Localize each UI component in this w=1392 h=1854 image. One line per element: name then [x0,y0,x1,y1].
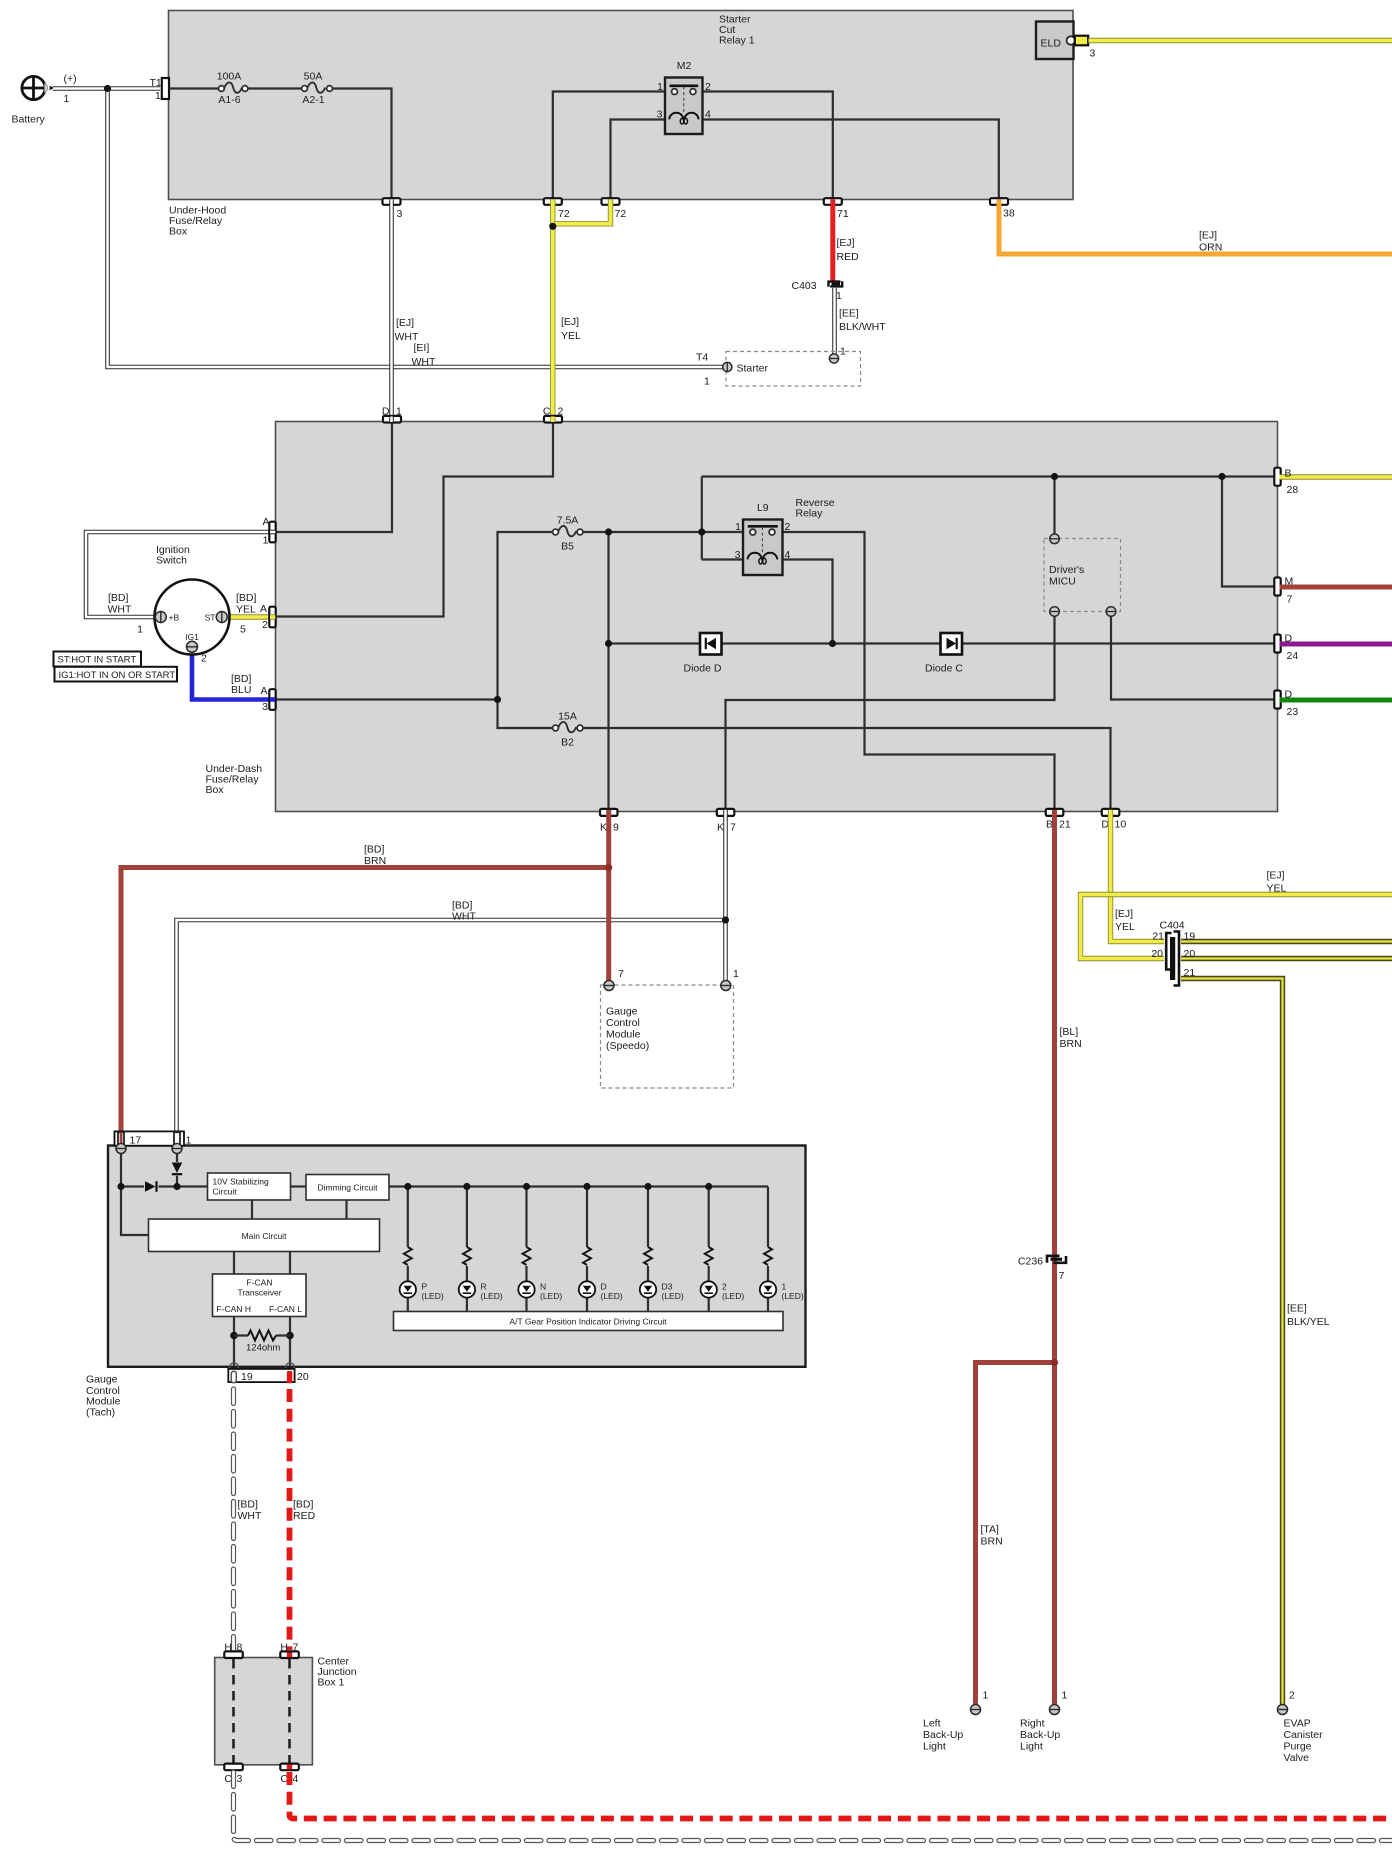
svg-text:D: D [1285,689,1293,701]
resistor 124ohm [234,1331,290,1354]
svg-text:3: 3 [262,701,268,713]
svg-text:20: 20 [297,1371,309,1383]
svg-text:72: 72 [615,208,627,220]
wire: [EJ] YEL from 72a down to C2 [550,200,555,422]
svg-text:Main Circuit: Main Circuit [242,1231,288,1241]
svg-text:(LED): (LED) [422,1291,444,1301]
svg-text:1: 1 [836,290,842,302]
connector 3 (under-hood box) [383,198,403,220]
ignition switch blue wire IG1 to A3 [192,653,271,700]
svg-text:T4: T4 [696,352,708,364]
svg-text:7.5A: 7.5A [557,515,579,527]
node: dot diode row at relay pin4 [829,640,836,647]
svg-text:Switch: Switch [156,555,187,567]
svg-text:A: A [260,603,267,615]
label [BD] BLU (ignition) [231,673,252,696]
svg-text:4: 4 [293,1773,299,1785]
connector C2 (under-dash top) [543,406,564,423]
svg-text:D: D [601,1282,607,1292]
svg-text:Back-Up: Back-Up [1020,1729,1060,1741]
label [BD] WHT (ignition) [108,592,132,616]
relay M2 (starter cut relay 1) [657,60,711,134]
svg-text:7: 7 [1287,594,1293,606]
connector B21 [1046,809,1071,831]
svg-text:19: 19 [241,1371,253,1383]
svg-text:C236: C236 [1018,1256,1043,1268]
svg-text:1: 1 [186,1135,192,1147]
LED column P [400,1183,444,1312]
svg-text:[EJ]: [EJ] [837,237,855,249]
svg-text:Module: Module [606,1029,641,1041]
label [BD] WHT [452,900,476,923]
label: reverse relay [796,497,835,520]
svg-text:Box: Box [169,226,188,238]
wire: 10V box down to main circuit [251,1200,253,1219]
svg-text:1: 1 [782,1282,787,1292]
note box ST:HOT IN START [54,652,142,667]
wire: MICU top pin from B28 row [1053,477,1055,535]
wire: dashed black inside junction box (right) [288,1659,291,1763]
svg-text:[BL]: [BL] [1060,1026,1079,1038]
svg-text:H: H [280,1642,288,1654]
svg-text:Gauge: Gauge [86,1374,118,1386]
svg-text:M: M [1285,576,1294,588]
svg-text:YEL: YEL [236,604,256,616]
svg-text:(+): (+) [64,73,77,85]
node: dot B28 row at M7 branch [1218,473,1225,480]
wire: M2 pin 2 to connector 71 [703,92,833,199]
svg-text:(LED): (LED) [722,1291,744,1301]
svg-text:2: 2 [705,81,711,93]
svg-text:(LED): (LED) [481,1291,503,1301]
wire: MICU bottom-left pin to K7 [726,616,1055,809]
wire: main circuit to F-CAN transceiver [234,1252,290,1275]
svg-text:ST: ST [205,613,216,623]
connector K7 [717,809,736,834]
svg-text:BRN: BRN [1060,1038,1082,1050]
svg-text:Circuit: Circuit [213,1187,238,1197]
svg-text:IG1: IG1 [185,632,199,642]
node: dot on white wire at K7 branch [722,916,729,923]
svg-text:Relay 1: Relay 1 [719,35,755,47]
label [BD] YEL (ignition) [236,592,257,616]
fuse 100A A1-6 [217,71,248,107]
under-dash fuse/relay box [276,422,1278,812]
svg-text:Right: Right [1020,1718,1045,1730]
svg-text:R: R [481,1282,487,1292]
svg-text:D: D [1285,633,1293,645]
svg-text:1: 1 [735,521,741,533]
svg-text:[EJ]: [EJ] [561,316,579,328]
wire: L9 pin 4 to diode row [783,560,833,644]
wire: 10V box to dimming box [291,1185,307,1187]
svg-text:1: 1 [137,624,143,636]
LED column N [518,1183,562,1312]
connector K9 [600,809,619,834]
svg-text:WHT: WHT [452,911,476,923]
svg-text:17: 17 [130,1135,142,1147]
svg-text:RED: RED [837,251,860,263]
svg-text:21: 21 [1152,931,1164,943]
wire: [BL] BRN from B21 down to back-up lights [976,810,1055,1705]
svg-text:B5: B5 [561,541,574,553]
LED column R [459,1183,503,1312]
wire: junction down to 15A fuse row to D10 [498,700,1111,809]
wire: [EI] WHT battery junction down and right to starter T4 [108,89,723,368]
svg-text:(LED): (LED) [782,1291,804,1301]
MICU top pin [1049,534,1060,544]
svg-text:MICU: MICU [1049,576,1076,588]
svg-text:10: 10 [1115,819,1127,831]
label: left back-up light [923,1718,963,1753]
driver's MICU dashed box [1044,539,1121,612]
svg-text:Diode D: Diode D [684,663,722,675]
relay L9 (reverse relay) [735,502,791,575]
tach: pin 1 internal wire and down diode [177,1153,208,1187]
svg-text:[BD]: [BD] [236,592,257,604]
svg-text:M2: M2 [677,60,692,72]
svg-text:[BD]: [BD] [364,844,385,856]
wire: dashed black inside junction box (left) [232,1659,235,1763]
svg-text:1: 1 [64,93,70,105]
label: under-hood box [169,205,226,238]
wire: [EE] BLK/YEL C404 pin 21 to EVAP valve [1181,979,1283,1706]
tach: internal diode (pin1 branch, down-pointing) [172,1163,182,1175]
svg-text:[EJ]: [EJ] [1199,230,1217,242]
wire: [EJ] YEL from right edge to C404 pin 20 [1081,895,1392,959]
svg-text:B: B [1285,468,1292,480]
svg-text:[EJ]: [EJ] [1115,908,1133,920]
svg-text:F-CAN: F-CAN [247,1278,273,1288]
speedo pin 7 [603,968,624,991]
svg-text:3: 3 [397,208,403,220]
under-hood fuse/relay box [169,11,1074,200]
label: EVAP canister purge valve [1284,1718,1324,1765]
wire: [EJ] ORN from connector 38 to right edge [999,200,1392,255]
svg-text:C403: C403 [792,280,817,292]
connector D24 + purple wire to edge [1274,633,1392,663]
battery labels [12,73,77,126]
svg-text:ORN: ORN [1199,242,1222,254]
connector A1 [262,516,275,547]
fuse 7.5A B5 [553,515,583,553]
connector 72b [602,198,627,220]
svg-text:Transceiver: Transceiver [237,1288,281,1298]
node: dot on brown wire at back-up branch [1051,1359,1058,1366]
svg-text:20: 20 [1151,948,1163,960]
svg-text:1: 1 [733,968,739,980]
svg-text:3: 3 [657,109,663,121]
wire: dimming box down to main circuit [345,1200,347,1219]
svg-text:2: 2 [558,406,564,418]
connector C403 [792,280,843,302]
svg-text:+B: +B [169,613,180,623]
label [EJ] YEL (top right) [1267,870,1287,895]
svg-text:A2-1: A2-1 [302,94,324,106]
wire: L9 pin 2 to B21 [783,532,1055,809]
wire: MICU bottom-right pin to D23 [1111,616,1278,700]
svg-text:21: 21 [1184,967,1196,979]
svg-text:1: 1 [1062,1690,1068,1702]
connector B28 + yellow wire to edge [1274,468,1392,497]
svg-text:(LED): (LED) [540,1291,562,1301]
svg-text:2: 2 [201,653,207,665]
wire: [EJ] YEL from D10 to C404 pin 21 [1111,810,1165,942]
label [BD] WHT (dashed) [238,1499,262,1523]
connector T1 [150,77,170,102]
svg-text:19: 19 [1184,931,1196,943]
svg-text:10V Stabilizing: 10V Stabilizing [213,1177,270,1187]
svg-text:Gauge: Gauge [606,1006,638,1018]
svg-text:WHT: WHT [108,604,132,616]
svg-text:21: 21 [1059,819,1071,831]
wire: M2 pin 4 to connector 38 [703,120,999,199]
svg-text:8: 8 [237,1642,243,1654]
label: center junction box 1 [318,1656,357,1689]
ignition switch [155,580,230,655]
wire: T1 to fuse 100A [169,87,219,89]
wire: junction up to 7.5A fuse row and to relay L9 pin 1 [498,532,744,700]
wire: diode row to D24 [609,642,1278,644]
label: right back-up light [1020,1718,1060,1753]
wire: M2 pin 1 to connector 72a [553,92,665,199]
label [BD] BRN [364,844,386,868]
svg-text:28: 28 [1287,484,1299,496]
diode D [684,633,722,675]
node: junction dot on battery wire [104,85,111,92]
svg-text:Box: Box [206,784,225,796]
connector D23 + green wire to edge [1274,689,1392,719]
dimming circuit box [306,1175,389,1201]
connector C4 [280,1764,299,1785]
svg-text:9: 9 [613,822,619,834]
svg-text:BLU: BLU [231,684,251,696]
wire: between fuses [248,87,302,89]
svg-text:YEL: YEL [1267,883,1287,895]
svg-text:1: 1 [155,90,161,102]
svg-text:[BD]: [BD] [108,592,129,604]
label: under-dash box [206,763,263,796]
svg-text:Dimming Circuit: Dimming Circuit [318,1183,379,1193]
svg-text:Starter: Starter [737,363,769,375]
svg-text:1: 1 [263,535,269,547]
tach bottom connector (pins 19 and 20) [228,1363,309,1383]
wire: [BD] RED dashed from pin 20 to H7 [287,1389,293,1650]
svg-text:A1-6: A1-6 [218,94,240,106]
ignition switch white wire +B to A1 [86,532,271,617]
node: dot B28 row at MICU [1051,473,1058,480]
center junction box 1 [215,1658,313,1765]
node: dot on 7.5A row at L9 feed [698,528,705,535]
svg-text:20: 20 [1184,948,1196,960]
label: starter cut relay 1 [719,14,755,47]
svg-text:N: N [540,1282,546,1292]
svg-text:B: B [1046,819,1053,831]
label [EE] BLK/YEL [1287,1303,1330,1329]
svg-text:7: 7 [293,1642,299,1654]
svg-text:23: 23 [1287,706,1299,718]
svg-text:Driver's: Driver's [1049,564,1084,576]
svg-text:A/T Gear Position Indicator Dr: A/T Gear Position Indicator Driving Circ… [509,1317,667,1327]
svg-text:WHT: WHT [238,1510,262,1522]
svg-text:[EE]: [EE] [1287,1303,1307,1315]
svg-text:1: 1 [396,406,402,418]
svg-text:D: D [382,406,390,418]
svg-text:124ohm: 124ohm [246,1343,280,1354]
svg-text:1: 1 [657,81,663,93]
svg-text:100A: 100A [217,71,242,83]
svg-text:BRN: BRN [981,1536,1003,1548]
wire: ELD yellow to right edge [1089,38,1392,43]
LED column 2 [701,1183,745,1312]
svg-text:P: P [422,1282,428,1292]
tach: internal diode (pin17 branch, right-pointing) [145,1181,157,1192]
connector 71 [824,198,849,220]
svg-text:7: 7 [1059,1270,1065,1282]
svg-text:3: 3 [735,549,741,561]
wire: [BD] WHT dashed from pin 19 to H8 [231,1389,236,1650]
wire: [EE] BLK/YEL C404 pin 20 to right edge [1181,956,1392,961]
F-CAN transceiver box [213,1274,307,1317]
node: yellow junction dot [549,223,556,230]
svg-text:Left: Left [923,1718,941,1730]
starter T4 dashed box [696,352,861,388]
svg-text:[BD]: [BD] [293,1499,314,1511]
wire: LED supply rail [389,1185,768,1187]
svg-text:K: K [717,822,724,834]
wire: [BD] RED dashed from C4 to right edge [290,1772,1392,1819]
wire: [EJ] WHT connector 3 down to D1 [389,200,394,422]
svg-text:24: 24 [1287,650,1299,662]
svg-text:38: 38 [1003,208,1015,220]
node: tach junction dot right [173,1183,180,1190]
label [EJ] ORN [1199,230,1222,254]
diode C [925,633,963,675]
LED column D [579,1183,623,1312]
label [EJ] WHT [395,317,419,343]
wire: [EJ] RED from 71 to C403 [830,200,835,281]
wire: [EE] BLK/YEL C404 pin 19 to right edge [1181,939,1392,944]
svg-text:BLK/YEL: BLK/YEL [1287,1316,1330,1328]
svg-text:Box 1: Box 1 [318,1677,345,1689]
tach pin 17 circle [115,1144,126,1154]
ELD unit [1036,22,1075,60]
svg-text:YEL: YEL [1115,921,1135,933]
wire: A3 to fuse junction [276,698,498,700]
svg-text:[EJ]: [EJ] [1267,870,1285,882]
svg-text:B2: B2 [561,737,574,749]
svg-text:Diode C: Diode C [925,663,963,675]
svg-text:[EJ]: [EJ] [396,317,414,329]
connector A2 [260,603,276,631]
svg-text:EVAP: EVAP [1284,1718,1311,1730]
svg-text:7: 7 [730,822,736,834]
label [EI] WHT [412,342,436,368]
pin at starter left edge [723,362,732,372]
left back-up light pin [970,1690,989,1715]
label [EJ] RED [837,237,860,263]
svg-text:F-CAN L: F-CAN L [269,1304,302,1314]
svg-text:[EI]: [EI] [414,342,430,354]
svg-text:(Tach): (Tach) [86,1407,115,1419]
connector D10 [1101,809,1126,831]
node: dot diode row [605,640,612,647]
LED column 1 [760,1187,804,1312]
svg-text:1: 1 [704,376,710,388]
svg-text:L9: L9 [757,502,769,514]
label [TA] BRN [981,1524,1003,1548]
label: ignition switch [156,544,190,567]
svg-text:ST:HOT IN START: ST:HOT IN START [58,655,137,666]
svg-text:F-CAN H: F-CAN H [217,1304,251,1314]
svg-text:(LED): (LED) [601,1291,623,1301]
connector H7 [280,1642,299,1659]
wire: B28 row [702,475,1278,477]
svg-text:4: 4 [785,549,791,561]
tach: pin 17 internal wire and diode to junction [121,1153,177,1235]
speedo pin 1 [720,968,739,991]
node: tach junction dot left [117,1183,124,1190]
wire: K9 vertical from 7.5A row through diode row [607,532,609,809]
battery symbol [22,76,54,100]
svg-text:50A: 50A [304,71,323,83]
label: gauge control module (tach) [86,1374,121,1419]
svg-text:T1: T1 [150,77,162,89]
svg-text:Light: Light [1020,1741,1043,1753]
wire: L9 pin 3 stub [702,558,743,560]
svg-text:7: 7 [618,968,624,980]
connector H8 [224,1642,243,1659]
svg-text:2: 2 [785,521,791,533]
node: dots at 124ohm resistor [230,1332,294,1340]
svg-text:WHT: WHT [412,356,436,368]
MICU bottom-left pin [1049,607,1060,617]
connector 38 [990,198,1015,219]
MICU bottom-right pin [1106,607,1117,617]
wire: [BD] BRN from K9 to speedo pin 7 and tach pin 17 [121,810,609,1132]
note box IG1:HOT IN ON OR START [55,667,178,682]
svg-text:BLK/WHT: BLK/WHT [839,321,886,333]
fuse 50A A2-1 [302,71,333,107]
svg-text:[BD]: [BD] [238,1499,259,1511]
connector C404 [1151,920,1195,986]
pin 1 at starter (BLK/WHT) [829,346,846,364]
LED column D3 [640,1183,684,1312]
svg-text:IG1:HOT IN ON OR START: IG1:HOT IN ON OR START [59,670,176,681]
svg-text:Light: Light [923,1741,946,1753]
gauge control module (speedo) dashed box [601,985,734,1088]
label [EE] BLK/WHT [839,308,886,334]
wire: [BD] WHT dashed from C3 to bottom right edge [234,1772,1392,1841]
svg-text:RED: RED [293,1510,316,1522]
svg-text:71: 71 [837,208,849,220]
svg-text:3: 3 [237,1773,243,1785]
node: dot 7.5A output [605,528,612,535]
svg-text:Battery: Battery [12,114,46,126]
node: dot at A3 junction [494,696,501,703]
gauge control module (tach) box [108,1146,806,1367]
svg-text:Canister: Canister [1284,1729,1324,1741]
svg-text:2: 2 [262,619,268,631]
10V stabilizing circuit box [208,1173,291,1200]
ignition switch yellow wire ST to A2 [228,614,272,619]
label [BL] BRN [1060,1026,1082,1050]
connector C236 [1018,1256,1066,1283]
right back-up light pin [1049,1690,1068,1715]
svg-text:[TA]: [TA] [981,1524,1000,1536]
svg-text:BRN: BRN [364,855,386,867]
connector 72a [544,198,570,220]
